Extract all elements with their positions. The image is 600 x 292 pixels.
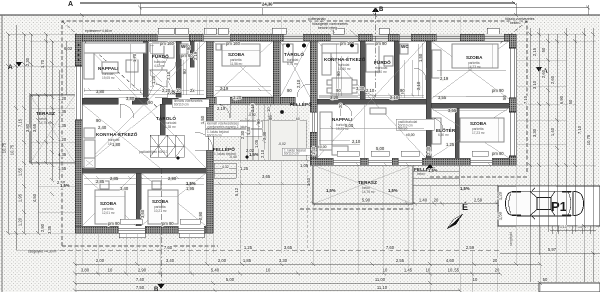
chain line L1 — [7, 34, 9, 233]
svg-text:1,20: 1,20 — [58, 96, 67, 101]
courtyard step edge — [213, 159, 310, 161]
svg-text:2,30: 2,30 — [240, 130, 245, 139]
svg-text:4,60: 4,60 — [446, 258, 455, 263]
svg-text:SZOBA: SZOBA — [152, 199, 169, 204]
svg-text:1,95: 1,95 — [186, 186, 195, 191]
svg-text:60/110 cm: 60/110 cm — [174, 103, 189, 107]
svg-text:2,15: 2,15 — [532, 47, 537, 56]
wall left unit mid segments — [82, 98, 118, 104]
svg-text:60: 60 — [296, 117, 300, 121]
left unit inner dim row — [84, 88, 204, 91]
svg-text:5,90: 5,90 — [362, 198, 371, 203]
car hood lines — [509, 192, 573, 215]
svg-text:10: 10 — [176, 88, 181, 93]
column dots — [286, 44, 290, 48]
svg-text:17,23 m²: 17,23 m² — [472, 131, 485, 135]
svg-text:7,50: 7,50 — [136, 285, 145, 290]
top margin stubs — [140, 3, 588, 15]
svg-text:1,40: 1,40 — [311, 146, 316, 155]
svg-text:6,90: 6,90 — [559, 95, 564, 104]
chain line R3 — [547, 34, 549, 232]
shower furdo left — [150, 70, 167, 87]
left unit vertical chains — [130, 41, 199, 95]
chain line L6 — [45, 34, 47, 163]
wall right unit west (courtyard east) — [310, 41, 317, 165]
window wc2 top — [399, 34, 411, 41]
window sill box 2 — [204, 28, 216, 34]
svg-text:2,90: 2,90 — [138, 268, 147, 273]
partition wc side — [190, 41, 194, 67]
svg-text:FELLÉPŐ: FELLÉPŐ — [213, 145, 235, 152]
svg-text:vízelvezetés egység 2. lakás: vízelvezetés egység 2. lakás — [207, 125, 248, 129]
svg-text:A: A — [8, 64, 13, 71]
section line A top — [80, 1, 516, 5]
svg-text:14,75 m²: 14,75 m² — [39, 121, 52, 125]
svg-text:7,60: 7,60 — [164, 245, 173, 250]
svg-text:WC: WC — [401, 44, 409, 49]
svg-text:1,70: 1,70 — [40, 59, 45, 68]
nappali2 dims — [320, 126, 424, 144]
window konyha2 top — [330, 34, 358, 41]
radiators right unit — [120, 151, 488, 224]
svg-text:2,59: 2,59 — [474, 198, 483, 203]
svg-text:1,50: 1,50 — [498, 211, 503, 220]
svg-text:1,95: 1,95 — [18, 193, 23, 202]
svg-text:NAPPALI: NAPPALI — [332, 117, 353, 122]
dashed kerb line — [60, 249, 500, 251]
window courtyard east wall — [310, 112, 317, 132]
svg-text:1,25: 1,25 — [240, 166, 249, 171]
door gap mid wall — [216, 97, 230, 104]
svg-text:pm 90: pm 90 — [375, 41, 387, 46]
bed szoba left b — [148, 190, 178, 224]
wardrobe szoba right bottom — [432, 118, 441, 144]
chain line L2 — [15, 25, 17, 250]
wc fixture right — [400, 44, 408, 54]
door arc right szoba bottom — [431, 118, 443, 130]
svg-text:1,35 m²: 1,35 m² — [165, 125, 176, 129]
svg-text:5,70 m²: 5,70 m² — [287, 62, 298, 66]
diagonal X szoba mid — [213, 41, 273, 97]
svg-text:1,5%: 1,5% — [326, 188, 336, 193]
window sill box 5 — [379, 28, 389, 34]
svg-text:2,19: 2,19 — [193, 51, 198, 60]
svg-text:1,80: 1,80 — [112, 142, 121, 147]
svg-text:1,55: 1,55 — [18, 167, 23, 176]
svg-text:60/110 cm: 60/110 cm — [284, 152, 299, 156]
window sill box 6 — [487, 28, 499, 34]
wall right perimeter — [509, 34, 516, 165]
svg-text:4,40 m²: 4,40 m² — [376, 70, 387, 74]
svg-text:1,55: 1,55 — [58, 166, 67, 171]
window szoba2 top — [436, 34, 460, 41]
svg-text:3,80: 3,80 — [25, 123, 30, 132]
svg-text:6,50 m²: 6,50 m² — [438, 133, 449, 137]
svg-text:20: 20 — [495, 268, 500, 273]
svg-text:10,75: 10,75 — [10, 144, 15, 155]
wall right of left unit (courtyard west) — [206, 41, 213, 233]
svg-text:1,5%: 1,5% — [60, 183, 70, 188]
svg-text:7,60: 7,60 — [386, 245, 395, 250]
svg-text:2,30: 2,30 — [25, 57, 30, 66]
svg-text:1. lakás bejárat: 1. lakás bejárat — [214, 152, 236, 156]
svg-text:1,50: 1,50 — [418, 53, 423, 62]
door arc right hall a — [340, 104, 352, 116]
extra left margin ticks — [6, 6, 590, 236]
ext horizontal right margin — [516, 34, 596, 226]
chain ticks right — [528, 32, 595, 255]
svg-text:50: 50 — [543, 277, 548, 282]
attic stair — [150, 135, 184, 157]
svg-text:4,32: 4,32 — [222, 165, 229, 169]
svg-text:3,30: 3,30 — [532, 128, 537, 137]
sink furdo right — [384, 56, 393, 66]
svg-text:5,00: 5,00 — [345, 123, 354, 128]
svg-text:padlásfeljáró 60/110: padlásfeljáró 60/110 — [139, 150, 168, 154]
label box padloburkolat — [396, 119, 434, 130]
svg-text:±0,00: ±0,00 — [406, 133, 415, 137]
svg-text:10: 10 — [383, 268, 388, 273]
wall top perimeter — [75, 34, 516, 41]
svg-text:1,05: 1,05 — [300, 163, 309, 168]
svg-text:1,25: 1,25 — [244, 245, 253, 250]
partition right unit hall/szoba east — [426, 41, 431, 158]
door arc left hall b — [155, 84, 168, 97]
svg-text:FÜRDŐ: FÜRDŐ — [152, 53, 169, 59]
svg-text:1,20: 1,20 — [498, 191, 503, 200]
section marker B bottom — [158, 284, 165, 289]
roof overhang dashed outline — [62, 21, 527, 246]
diagonal X szoba right bottom — [431, 108, 509, 158]
svg-text:3,60: 3,60 — [140, 209, 145, 218]
chain line R6 — [574, 34, 576, 232]
svg-text:2,00: 2,00 — [218, 258, 227, 263]
svg-text:A: A — [68, 1, 73, 8]
partition left unit mid hall — [82, 168, 206, 173]
svg-text:3,55: 3,55 — [438, 95, 447, 100]
svg-text:2,20: 2,20 — [162, 88, 171, 93]
window right unit bottom c — [398, 158, 422, 165]
svg-text:12,01 m²: 12,01 m² — [102, 211, 115, 215]
sofa nappali left — [84, 43, 146, 53]
small chain top parking — [550, 226, 596, 234]
courtyard kerb dashes — [239, 160, 241, 250]
svg-text:SZOBA: SZOBA — [466, 55, 483, 60]
partition right szoba divider — [431, 103, 509, 108]
svg-text:90: 90 — [182, 69, 187, 74]
chain line R1 — [529, 28, 531, 282]
extra bottom-right verticals — [413, 204, 593, 292]
window sill box 4 — [333, 28, 344, 34]
svg-text:pm 90: pm 90 — [162, 221, 174, 226]
svg-text:5,97: 5,97 — [548, 247, 557, 252]
svg-text:10: 10 — [266, 107, 271, 112]
svg-text:FÜRDŐ: FÜRDŐ — [374, 59, 391, 65]
svg-text:pm 60: pm 60 — [181, 53, 193, 58]
chain line L7 — [51, 41, 53, 180]
svg-text:3,65: 3,65 — [32, 123, 37, 132]
svg-text:2,85: 2,85 — [96, 179, 105, 184]
chain line R7 — [583, 28, 585, 282]
svg-text:2,00: 2,00 — [96, 258, 105, 263]
partition konyha/tarolo left — [160, 104, 165, 144]
door arc right furdo — [365, 93, 376, 104]
svg-text:90: 90 — [336, 88, 341, 93]
right unit vertical chains — [336, 44, 506, 96]
sink furdo left — [164, 44, 174, 58]
svg-text:1,20: 1,20 — [58, 137, 67, 142]
chain line L5 — [37, 95, 39, 233]
terrace dim row — [313, 203, 497, 205]
window right unit bottom szoba2 — [470, 158, 492, 165]
north needle — [447, 214, 463, 229]
shelf tarolo mid — [283, 44, 293, 62]
car mirrors — [532, 188, 535, 219]
svg-text:pm 160: pm 160 — [226, 41, 241, 46]
nightstand left b — [152, 181, 161, 189]
ext vertical mid — [240, 104, 540, 292]
left margin small horizontals — [8, 34, 75, 250]
kitchen counter right unit — [322, 44, 358, 53]
ext vertical left unit — [75, 233, 213, 291]
svg-text:3,65: 3,65 — [262, 174, 271, 179]
extra left chains — [59, 41, 66, 180]
window right unit bottom b — [368, 158, 392, 165]
svg-text:14,75 m²: 14,75 m² — [362, 190, 375, 194]
row b4 — [75, 290, 460, 292]
door arc left wc — [166, 62, 176, 72]
svg-text:1,5%: 1,5% — [388, 188, 398, 193]
sheet edge line — [1, 15, 3, 292]
window furdo2 top — [372, 34, 388, 41]
svg-text:1,85: 1,85 — [243, 258, 252, 263]
dining table right — [332, 78, 352, 94]
svg-text:10,75: 10,75 — [586, 134, 591, 145]
section line B dashes top — [375, 13, 377, 97]
entry marker triangle — [426, 164, 434, 169]
ext horizontal left margin — [8, 34, 75, 233]
kitchen counter left unit — [84, 140, 95, 168]
left unit inner dim row2 — [84, 93, 204, 95]
svg-text:3,10: 3,10 — [532, 80, 537, 89]
car wheels — [512, 192, 571, 216]
diagonal X konyha-nappali right — [317, 41, 426, 158]
svg-text:50: 50 — [502, 95, 507, 100]
svg-text:7,10: 7,10 — [523, 95, 528, 104]
courtyard ticks — [245, 112, 272, 143]
chain line R4 — [556, 34, 558, 232]
svg-text:1,25: 1,25 — [446, 142, 455, 147]
car windshield — [530, 191, 555, 215]
svg-text:SZOBA: SZOBA — [228, 52, 245, 57]
svg-text:NAPPALI: NAPPALI — [98, 66, 119, 71]
window tarolo top — [283, 34, 303, 41]
terrace door right unit bottom — [333, 158, 360, 165]
chain line R5 — [565, 28, 567, 232]
partition right unit hall horizontal — [317, 99, 426, 104]
svg-text:1,5%: 1,5% — [428, 168, 438, 173]
svg-text:24,30: 24,30 — [262, 2, 273, 7]
section marker A right — [536, 67, 542, 72]
window mid szoba top — [203, 34, 230, 41]
svg-text:15,80 m²: 15,80 m² — [338, 67, 351, 71]
svg-text:1,45: 1,45 — [404, 268, 413, 273]
tub furdo right — [366, 44, 379, 72]
svg-text:10: 10 — [426, 268, 431, 273]
svg-text:KONYHA-ÉTKEZŐ: KONYHA-ÉTKEZŐ — [96, 130, 138, 137]
svg-text:2,10: 2,10 — [296, 79, 301, 88]
door right unit entry in mid wall — [295, 97, 310, 104]
svg-text:1,20: 1,20 — [18, 217, 23, 226]
svg-text:90: 90 — [400, 88, 405, 93]
svg-text:2,90: 2,90 — [40, 223, 45, 232]
white box bottom right — [539, 283, 600, 292]
svg-text:7,40: 7,40 — [136, 277, 145, 282]
svg-text:2,85: 2,85 — [110, 176, 119, 181]
svg-text:2,10: 2,10 — [166, 71, 171, 80]
building interior white — [75, 34, 516, 233]
door arc left hall a — [120, 104, 134, 118]
svg-text:2,40: 2,40 — [98, 125, 107, 130]
car body — [506, 191, 584, 216]
svg-text:3,65: 3,65 — [284, 245, 293, 250]
svg-text:3,30: 3,30 — [279, 258, 288, 263]
svg-text:90: 90 — [336, 71, 341, 76]
door arc left entry — [195, 132, 213, 150]
svg-text:FELLÉPŐ: FELLÉPŐ — [290, 100, 312, 107]
courtyard rotated dims — [96, 88, 405, 196]
window szoba2b top — [484, 34, 504, 41]
section marker B top — [372, 7, 379, 12]
wall mid-block bottom — [206, 97, 297, 104]
terasz left outline — [30, 95, 75, 163]
diagonal X szoba left a — [82, 173, 136, 226]
svg-text:pm 160: pm 160 — [160, 41, 175, 46]
nightstand mid a — [216, 44, 221, 50]
label box bejarat1 — [205, 121, 262, 128]
szoba mid dim — [215, 86, 271, 91]
svg-text:1,40: 1,40 — [419, 198, 428, 203]
svg-text:pm 90: pm 90 — [492, 88, 504, 93]
svg-text:60/110 cm: 60/110 cm — [207, 134, 222, 138]
entry door left unit east wall — [206, 128, 213, 150]
svg-text:2,30: 2,30 — [262, 131, 267, 140]
svg-text:1,13: 1,13 — [560, 225, 567, 229]
chain line R2 — [538, 28, 540, 255]
svg-text:2,10: 2,10 — [260, 149, 265, 158]
chain line R8 — [592, 28, 594, 282]
svg-text:fellépő: fellépő — [398, 127, 408, 131]
chain line L3 — [23, 34, 25, 233]
svg-text:5,00: 5,00 — [226, 277, 235, 282]
svg-text:10: 10 — [448, 268, 453, 273]
window right wall szoba2 — [509, 112, 516, 156]
svg-text:90: 90 — [186, 45, 191, 50]
svg-text:1,40: 1,40 — [306, 177, 311, 186]
svg-text:2,10: 2,10 — [416, 81, 421, 90]
svg-text:2,60: 2,60 — [541, 69, 546, 78]
svg-text:ELŐTÉR: ELŐTÉR — [436, 126, 456, 133]
tv table nappali right — [370, 108, 386, 114]
svg-text:4,52 m²: 4,52 m² — [154, 64, 165, 68]
svg-text:3,40: 3,40 — [166, 258, 175, 263]
terasz left slope — [30, 95, 75, 163]
label box linearis — [172, 99, 209, 107]
svg-text:1,40: 1,40 — [246, 126, 251, 135]
partition furdo/wc — [176, 41, 181, 97]
svg-text:7,10: 7,10 — [577, 125, 582, 134]
diagonal X szoba left b — [141, 173, 206, 226]
insulation dots left wall — [78, 44, 80, 46]
svg-text:-0,02: -0,02 — [278, 142, 286, 146]
svg-text:szegélykő: szegélykő — [509, 232, 513, 246]
svg-text:11,10: 11,10 — [377, 285, 388, 290]
svg-text:11,56 m²: 11,56 m² — [230, 62, 242, 66]
fellepo right steps — [413, 165, 459, 185]
svg-text:1,35: 1,35 — [58, 123, 67, 128]
wc fixture left — [180, 44, 188, 54]
diagonal X konyha left — [82, 104, 160, 168]
svg-text:TÁROLÓ: TÁROLÓ — [156, 114, 176, 121]
row b3 — [75, 282, 560, 284]
entry walkway slab — [240, 120, 306, 160]
svg-text:2,90: 2,90 — [198, 211, 203, 220]
terrace glazing left wall — [75, 66, 82, 120]
svg-text:2,10: 2,10 — [250, 103, 255, 112]
chain ticks left — [6, 32, 54, 235]
svg-text:KONYHA-ÉTKEZŐ: KONYHA-ÉTKEZŐ — [324, 55, 366, 62]
window nappali1 top — [157, 34, 189, 41]
bed szoba right top — [452, 44, 498, 68]
svg-text:20: 20 — [434, 198, 439, 203]
svg-text:3,80: 3,80 — [81, 268, 90, 273]
svg-text:5,12: 5,12 — [234, 187, 239, 196]
window bottom wall szoba a — [118, 226, 145, 233]
svg-text:10,27 m²: 10,27 m² — [154, 209, 167, 213]
svg-text:2,55: 2,55 — [396, 258, 405, 263]
svg-text:1,70: 1,70 — [132, 53, 137, 62]
partition nappali/furdo — [143, 41, 148, 97]
partition elater/szoba2 — [455, 108, 459, 158]
svg-text:50: 50 — [541, 47, 546, 52]
svg-text:3,80: 3,80 — [96, 89, 105, 94]
svg-text:10: 10 — [266, 268, 271, 273]
svg-text:építésterv+4,66 m: építésterv+4,66 m — [85, 29, 112, 33]
svg-text:4,35: 4,35 — [58, 152, 67, 157]
car roof — [537, 198, 551, 210]
fellepo steps west — [214, 163, 236, 178]
door arc right entry — [297, 84, 310, 97]
svg-text:10: 10 — [473, 277, 478, 282]
svg-text:3,30: 3,30 — [356, 86, 365, 91]
svg-text:belterü: belterü — [510, 21, 520, 25]
svg-text:3,55: 3,55 — [448, 108, 457, 113]
svg-text:4,50: 4,50 — [32, 193, 37, 202]
svg-text:05: 05 — [268, 115, 273, 120]
overall dim 24,30 — [140, 5, 588, 10]
nightstand left a — [100, 181, 109, 189]
svg-text:1,40: 1,40 — [550, 127, 555, 136]
terasz right slope diagonals — [313, 165, 413, 204]
bedroom dim row left — [84, 176, 204, 184]
svg-text:P1: P1 — [551, 199, 567, 214]
wall bottom left unit — [75, 226, 213, 233]
svg-text:2,59: 2,59 — [466, 245, 475, 250]
svg-text:2,10: 2,10 — [366, 88, 375, 93]
svg-text:11,00: 11,00 — [375, 277, 386, 282]
svg-text:2,10: 2,10 — [352, 139, 361, 144]
svg-text:3,35: 3,35 — [47, 225, 52, 234]
